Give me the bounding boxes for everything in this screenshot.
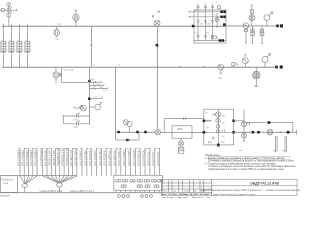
lamp HL3 (circle above bus2 with flag)	[262, 53, 271, 67]
contact rail 2	[64, 121, 90, 126]
svg-text:Лист: Лист	[172, 194, 177, 196]
relay KV3 (hanging coil 3)	[260, 26, 264, 43]
cable marks below frame	[118, 195, 153, 198]
svg-text:КЛ1-2 ВВОДН: КЛ1-2 ВВОДН	[22, 150, 25, 166]
cable W1 (double line down)	[275, 137, 278, 152]
svg-text:Питание от: Питание от	[2, 180, 15, 182]
node dots bus2 right end	[276, 66, 283, 68]
notes header marks	[239, 150, 285, 152]
svg-text:УРОВЕНЬ 2 КВ: УРОВЕНЬ 2 КВ	[66, 148, 69, 166]
svg-text:К2-1 УПРАВЛ: К2-1 УПРАВЛ	[94, 150, 97, 166]
title block stamp row	[213, 194, 255, 196]
bus 2 (lower feeder bus)	[2, 66, 277, 68]
svg-text:А-1 ОСВЕЩЕН: А-1 ОСВЕЩЕН	[40, 148, 43, 166]
svg-text:Вводной: Вводной	[1, 195, 11, 198]
control line to KM box	[161, 131, 172, 133]
relay K2 circles inside A2	[212, 112, 224, 139]
junction dot	[156, 44, 158, 46]
svg-text:КЛ3-3 НАСОС: КЛ3-3 НАСОС	[142, 149, 145, 166]
left wires collector line	[0, 175, 77, 177]
wire: block A2 exit stub down	[217, 145, 219, 147]
wire group C (terminal box cores)	[80, 148, 159, 175]
extra marks inside A2	[206, 113, 226, 144]
svg-text:А-2 ОСВЕЩЕН: А-2 ОСВЕЩЕН	[44, 148, 47, 166]
junction dot on trunk	[88, 98, 90, 100]
wire: trunk below bus2 to starter loop	[89, 67, 91, 125]
lamp HL5 (circle with flag)	[89, 103, 102, 110]
svg-text:К3-1 ДАТЧИК: К3-1 ДАТЧИК	[109, 150, 112, 166]
feedback loop above	[164, 117, 204, 132]
svg-text:ЗАДВИЖКА КВ: ЗАДВИЖКА КВ	[57, 148, 60, 166]
svg-text:ОБД5-741.12.АТВ: ОБД5-741.12.АТВ	[250, 181, 279, 185]
motor M1 (double circle below bus2 right)	[252, 67, 260, 87]
contactor KM2 circles above control line	[123, 120, 132, 132]
terminal circles row 2	[121, 185, 159, 188]
svg-text:КЛ1-3 ВВОДН: КЛ1-3 ВВОДН	[26, 150, 29, 166]
relay KV1 (hanging coil 1)	[244, 28, 247, 43]
note word boxes line 1	[209, 156, 291, 159]
svg-text:КЛ1-1 ВВОДН: КЛ1-1 ВВОДН	[17, 150, 20, 166]
fuse FU3	[17, 41, 22, 52]
relay ladder K1 (contact rows below bus2)	[89, 81, 108, 90]
svg-text:НАСОС 2 КВГ: НАСОС 2 КВГ	[53, 149, 56, 166]
stubs below terminal box	[116, 190, 159, 193]
lamp HL6 below KM box	[178, 138, 183, 146]
svg-text:К1-1 УПРАВЛ: К1-1 УПРАВЛ	[79, 150, 82, 166]
breaker QF5 (circle on feeder line)	[243, 23, 249, 29]
svg-text:ДАТЧИК Р КВ: ДАТЧИК Р КВ	[70, 150, 73, 166]
node dots control right	[252, 131, 289, 133]
wire: left riser 2	[11, 26, 13, 67]
svg-text:КМ1: КМ1	[177, 127, 183, 131]
wire: trunk riser QF column	[91, 26, 93, 67]
svg-text:К1-3 РЕЗЕРВ: К1-3 РЕЗЕРВ	[89, 150, 92, 166]
labels group B	[40, 147, 77, 166]
loop below control line	[116, 132, 140, 141]
svg-text:ЩС 0,4кВ: ЩС 0,4кВ	[64, 69, 74, 71]
svg-text:К1-2 СИГНАЛ: К1-2 СИГНАЛ	[84, 150, 87, 166]
svg-text:КЛ4-3 СЕТЬ: КЛ4-3 СЕТЬ	[157, 152, 160, 166]
svg-text:Изм.5: Изм.5	[162, 191, 167, 193]
svg-text:Дт: Дт	[190, 194, 192, 196]
svg-text:КЛ3-2 НАСОС: КЛ3-2 НАСОС	[138, 149, 141, 166]
svg-text:Подп: Подп	[183, 194, 188, 196]
labels relay ladder	[91, 79, 108, 92]
transformer TV1 (circle on stub below bus1)	[54, 26, 60, 36]
labels inside A2	[222, 116, 227, 139]
supply box (bottom left)	[1, 176, 18, 193]
transformer TV2 (circle below bus2 left)	[53, 67, 62, 80]
svg-text:Инв. № подл.: Инв. № подл.	[162, 196, 174, 199]
wire: left tie of rails	[62, 115, 63, 124]
wire: KM box to block A2	[192, 131, 204, 133]
bypass loop upper right	[245, 123, 293, 133]
wire: branch right with tick	[89, 97, 102, 99]
svg-text:745-21: 745-21	[184, 191, 190, 193]
frame bottom line	[0, 192, 161, 194]
svg-text:КЛ4-2 СЕТЬ: КЛ4-2 СЕТЬ	[152, 152, 155, 166]
meter PA2 (circle with flag, top right)	[264, 12, 273, 26]
bus labels	[57, 24, 121, 72]
wire: branch from bus2 to relay ladder	[62, 67, 89, 83]
svg-text:К3-2 ДАТЧИК: К3-2 ДАТЧИК	[113, 150, 116, 166]
svg-text:линий выполнить в лотках и тру: линий выполнить в лотках и трубах ПВХ по…	[208, 168, 285, 171]
wire: riser from bus1 to coil circuit	[157, 27, 159, 130]
revision table mid row marks	[162, 190, 205, 193]
svg-text:НАСОС 1 КВГ: НАСОС 1 КВГ	[49, 149, 52, 166]
breaker QF6 (circle on bus2)	[218, 64, 224, 73]
fuse FU4	[25, 41, 30, 52]
switch column S2 inside A1	[204, 5, 207, 41]
supply box text	[2, 180, 15, 186]
revision table	[161, 180, 212, 196]
svg-text:КЛ3-1 НАСОС: КЛ3-1 НАСОС	[133, 149, 136, 166]
end tick control line	[296, 130, 298, 135]
meter PV1 (circle above bus1)	[73, 10, 79, 27]
contactor box KM1	[172, 126, 192, 138]
wire: riser bus2 to pump circuit	[115, 67, 117, 140]
svg-text:Согл.: Согл.	[206, 197, 211, 199]
title block right part	[212, 179, 297, 195]
svg-text:Взам. инв. №: Взам. инв. №	[192, 196, 204, 199]
svg-text:КЛ1-5 ВВОДН: КЛ1-5 ВВОДН	[34, 150, 37, 166]
svg-text:Разраб. Иванов Подп.: Разраб. Иванов Подп. Дата Стадия Лист Ли…	[213, 194, 255, 196]
wire: left riser 3	[19, 26, 21, 67]
control line right section	[234, 131, 297, 133]
fuse FU1	[1, 41, 6, 52]
node dots control line	[118, 131, 147, 133]
svg-text:КЛ2-3 УРОВН: КЛ2-3 УРОВН	[128, 150, 131, 166]
wire: left riser 4	[27, 26, 29, 67]
svg-text:Q1: Q1	[219, 76, 223, 80]
wire group A (cable 1 cores)	[18, 148, 37, 183]
junction ticks on buses	[3, 24, 27, 26]
node dot bypass	[268, 122, 270, 124]
pilot circle top right of A1	[217, 6, 220, 9]
switch column S1 inside A1	[197, 5, 200, 41]
node dots bus1 right end	[277, 25, 283, 27]
lamp HL2 (circle above bus2 with flag)	[242, 55, 248, 67]
coil circle KL1	[155, 130, 160, 135]
breaker QF1 (circle on bus1)	[154, 11, 160, 26]
svg-text:Изм: Изм	[162, 194, 166, 196]
svg-text:Подп. и дата: Подп. и дата	[177, 197, 189, 199]
svg-text:Канализационная насосная ста: Канализационная насосная станция КНС-2 (…	[201, 189, 300, 192]
revision table bottom row text	[162, 193, 212, 196]
svg-text:Уч: Уч	[169, 194, 171, 196]
bus 1 (top feeder bus)	[2, 25, 277, 27]
labels group A	[17, 150, 37, 166]
lamp HL1 inside A1	[215, 13, 219, 28]
wire group B (cable 2 cores)	[41, 148, 77, 183]
svg-text:сети: сети	[4, 183, 9, 185]
under-table sidebar text band	[162, 196, 211, 199]
labels inside A1	[195, 10, 217, 35]
cable bundle 2	[57, 183, 63, 192]
svg-text:УРОВЕНЬ 1 КВ: УРОВЕНЬ 1 КВ	[62, 148, 65, 166]
control block A2	[204, 109, 234, 145]
fused switch QS1 (top right vertical chain)	[249, 5, 255, 26]
switchgear block A1	[189, 10, 226, 43]
relay KV2 (hanging coil 2)	[251, 26, 255, 43]
label box inside A1	[212, 36, 218, 39]
svg-text:КЛ4-1 СЕТЬ: КЛ4-1 СЕТЬ	[147, 152, 150, 166]
switch SA1 (small box on bus2)	[232, 63, 238, 67]
cable bundle 1	[22, 184, 28, 193]
node dots block A1	[192, 11, 225, 41]
svg-text:СИГНАЛ АВР К: СИГНАЛ АВР К	[74, 147, 77, 166]
fuse FU2	[9, 41, 14, 52]
lamp HL4 (double circle in control loop)	[74, 105, 86, 111]
node dots block A2	[203, 120, 235, 146]
lamp HL7 (circle on control line)	[267, 129, 273, 135]
fuse FU5 below lamp HL6	[178, 147, 183, 153]
tick on control line	[280, 131, 281, 133]
svg-text:зам.: зам.	[173, 191, 177, 193]
junction dot ladder	[89, 80, 91, 82]
svg-text:КЛ1-4 ВВОДН: КЛ1-4 ВВОДН	[30, 150, 33, 166]
junction tick on bus2	[179, 66, 181, 68]
svg-text:КЛ2-1 УРОВН: КЛ2-1 УРОВН	[118, 150, 121, 166]
relay KV5 (circle below KV4)	[241, 133, 246, 141]
cable W2 (double line down)	[284, 137, 287, 152]
junction tick on bus2	[203, 66, 205, 68]
labels group C	[79, 149, 160, 166]
contact rail 1	[64, 113, 90, 118]
designator mark near QF1	[152, 15, 154, 17]
svg-text:КЛ2-2 УРОВН: КЛ2-2 УРОВН	[123, 150, 126, 166]
control line (y=132)	[116, 131, 156, 133]
terminal box XT1	[114, 175, 163, 190]
column numbers above A1	[197, 2, 218, 5]
terminal circles row 1	[116, 179, 163, 182]
svg-text:К2-3 РЕЗЕРВ: К2-3 РЕЗЕРВ	[104, 150, 107, 166]
relay KV4 (circle right of A2)	[234, 110, 250, 142]
meter PA1 (top-left instrument group)	[0, 3, 17, 26]
svg-text:К2-2 СИГНАЛ: К2-2 СИГНАЛ	[99, 150, 102, 166]
tick mark on trunk	[90, 44, 92, 45]
switch column S3 inside A1	[211, 5, 214, 41]
wire: left riser 1	[3, 26, 5, 67]
svg-text:Изм: Изм	[194, 194, 198, 196]
